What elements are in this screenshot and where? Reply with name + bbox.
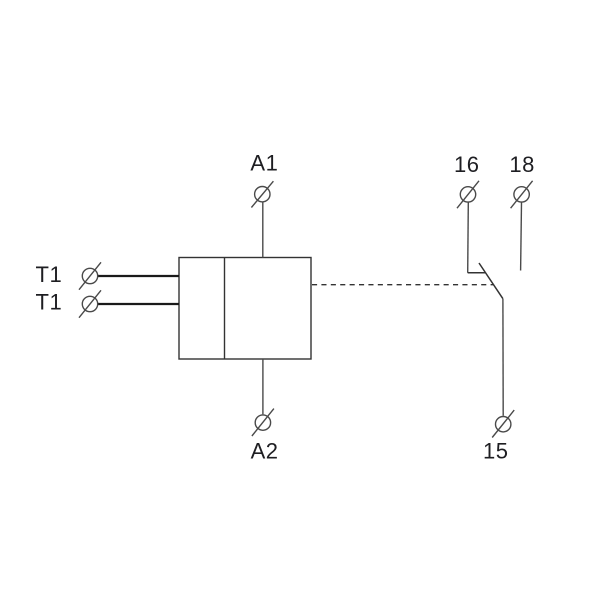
svg-text:A1: A1 [250,151,278,176]
svg-text:18: 18 [509,152,534,177]
svg-text:T1: T1 [36,262,63,287]
svg-text:16: 16 [454,152,479,177]
svg-text:15: 15 [483,438,508,463]
svg-text:T1: T1 [36,290,63,315]
svg-text:A2: A2 [251,438,279,463]
